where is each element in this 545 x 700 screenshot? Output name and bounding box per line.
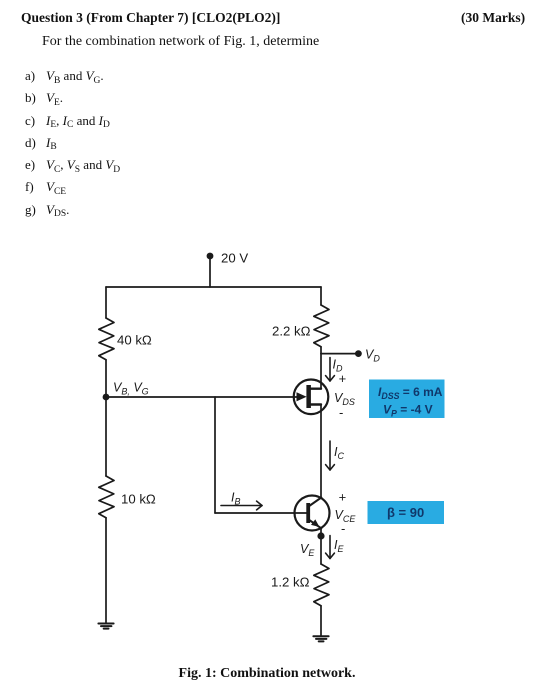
arrow: IB current arrow — [221, 501, 262, 510]
label: - (VDS minus) — [339, 405, 343, 420]
wire: from R3 to VD junction — [320, 347, 322, 354]
ground (right, below R4) — [313, 636, 328, 641]
wire: top rail — [106, 286, 321, 288]
svg-text:-: - — [339, 405, 343, 420]
arrow: IC current arrow — [326, 441, 335, 470]
node VD terminal dot — [355, 350, 362, 357]
label: IC — [334, 445, 344, 461]
wire: JFET source down to BJT collector — [320, 405, 322, 499]
arrow: IE current arrow — [326, 536, 335, 559]
svg-text:VE: VE — [300, 542, 315, 558]
wire: drain wire from VD junction into JFET — [320, 354, 322, 389]
label: ID — [333, 358, 343, 374]
label: 1.2 kOhm — [271, 575, 310, 590]
wire: from R4 to ground — [320, 606, 322, 636]
label: 2.2 kOhm — [272, 324, 311, 339]
wire: base wire into BJT — [215, 512, 307, 514]
arrow: ID current arrow — [326, 358, 335, 382]
label: VE — [300, 542, 315, 558]
svg-text:VCE: VCE — [335, 508, 357, 524]
svg-text:β = 90: β = 90 — [387, 505, 424, 520]
ground (left, below R2) — [98, 624, 113, 629]
resistor R3 2.2 kOhm — [314, 305, 329, 347]
resistor R1 40 kOhm — [99, 318, 114, 360]
wire: left branch upper segment — [105, 287, 107, 318]
svg-text:+: + — [339, 371, 347, 386]
transistor Q1 JFET channel bar — [306, 385, 311, 408]
transistor Q2 BJT circle — [295, 496, 330, 531]
wire: gate wire from VB,VG node to JFET gate — [106, 396, 297, 398]
transistor Q2 BJT collector diagonal — [309, 498, 322, 507]
resistor R4 1.2 kOhm — [314, 564, 329, 606]
svg-text:+: + — [339, 490, 347, 505]
svg-text:-: - — [341, 521, 345, 536]
label: 40 kOhm — [117, 333, 152, 348]
svg-text:VP = -4 V: VP = -4 V — [383, 403, 433, 419]
svg-text:IE: IE — [334, 538, 344, 554]
label: + (VDS plus) — [339, 371, 347, 386]
node VB,VG junction dot — [103, 394, 110, 401]
annotation box: beta value — [368, 501, 445, 524]
annotation box: IDSS / VP values — [369, 380, 445, 419]
svg-text:40 kΩ: 40 kΩ — [117, 333, 152, 348]
svg-text:2.2 kΩ: 2.2 kΩ — [272, 324, 311, 339]
label: IE — [334, 538, 344, 554]
wire: right branch upper segment — [320, 287, 322, 305]
label: 20 V — [221, 250, 248, 265]
svg-text:VDS: VDS — [334, 391, 355, 407]
transistor Q1 JFET gate arrowhead — [297, 392, 307, 401]
transistor Q1 JFET circle — [294, 380, 329, 415]
transistor Q2 BJT base bar — [306, 503, 310, 523]
transistor Q1 JFET source lead — [309, 403, 321, 405]
transistor Q2 BJT emitter diagonal with arrowhead — [309, 519, 322, 528]
svg-text:IB: IB — [231, 491, 241, 507]
wire: left branch from R1 to VB,VG node — [105, 360, 107, 397]
svg-text:IC: IC — [334, 445, 344, 461]
label: VCE — [335, 508, 357, 524]
wire: left branch from R2 to ground — [105, 518, 107, 624]
label: - (VCE minus) — [341, 521, 345, 536]
label: VD — [365, 348, 380, 364]
wire: emitter down to VE node — [320, 528, 322, 564]
svg-text:1.2 kΩ: 1.2 kΩ — [271, 575, 310, 590]
label: IB — [231, 491, 241, 507]
label: + (VCE plus) — [339, 490, 347, 505]
wire: left branch from node to R2 — [105, 397, 107, 476]
wire: supply stub from 20V dot to top rail — [209, 256, 211, 287]
svg-text:VD: VD — [365, 348, 380, 364]
svg-text:VB, VG: VB, VG — [113, 381, 149, 397]
node: +20 V supply terminal — [207, 253, 214, 260]
svg-text:20 V: 20 V — [221, 250, 248, 265]
node VE dot — [317, 532, 324, 539]
label: VB, VG — [113, 381, 149, 397]
wire: middle vertical wire from gate wire down to base wire — [214, 397, 216, 513]
svg-text:10 kΩ: 10 kΩ — [121, 492, 156, 507]
resistor R2 10 kOhm — [99, 476, 114, 518]
label: VDS — [334, 391, 355, 407]
transistor Q1 JFET drain lead — [309, 388, 321, 390]
label: 10 kOhm — [121, 492, 156, 507]
wire: VD tap wire — [321, 353, 358, 355]
